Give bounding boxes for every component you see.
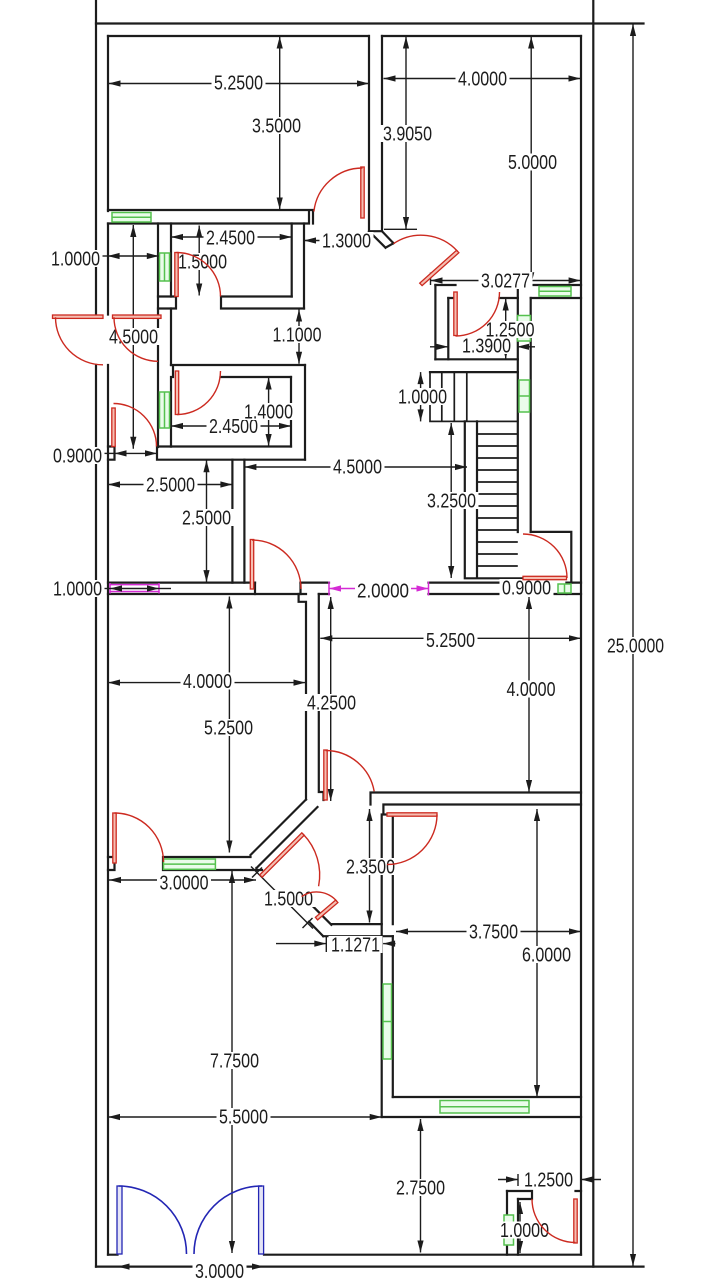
wall floor divider band upper line: [108, 581, 581, 583]
svg-text:2.7500: 2.7500: [396, 1178, 445, 1200]
wall floor divider band lower line: [108, 593, 581, 595]
dim 1.3000 hall door: [304, 240, 369, 242]
dim 5.2500 room1 width: [109, 83, 370, 85]
door D9 duct to kitchen: [112, 404, 157, 447]
svg-text:1.0000: 1.0000: [51, 249, 100, 271]
wall chamfer corner: [251, 800, 318, 871]
wall stairs nook: [531, 532, 572, 583]
svg-text:3.9050: 3.9050: [383, 124, 432, 146]
dim 3.9050 hall1 height: [405, 37, 407, 230]
wall bedroom2 bottom band with door opening: [108, 857, 262, 870]
wall small room BR top band with door opening: [507, 1191, 581, 1199]
dim 4.0000 room2 width: [384, 78, 581, 80]
wire exterior right wall inner line: [580, 36, 582, 1255]
label 1.0000 magenta window: [51, 579, 105, 601]
label 5.0000 room2: [506, 152, 560, 174]
dim 0.9000 duct door: [102, 452, 115, 454]
svg-text:0.9000: 0.9000: [502, 578, 551, 600]
dim 4.5000 lightwell column height: [132, 225, 134, 449]
svg-text:1.5000: 1.5000: [178, 252, 227, 274]
svg-text:5.2500: 5.2500: [214, 73, 263, 95]
window stairwell right wall: [519, 380, 530, 412]
label 0.9000 stairs door: [500, 578, 554, 600]
svg-text:3.5000: 3.5000: [252, 116, 301, 138]
label 2.0000 magenta: [355, 581, 411, 603]
wall divider rooms4-3: [371, 793, 582, 815]
label 2.3500 hall2: [344, 857, 398, 879]
dim 1.5000 chamfer door diagonal: [251, 867, 313, 929]
label 4.5000 lightwell col: [107, 327, 161, 349]
door D17 small room BR: [532, 1199, 577, 1243]
dim 4.0000 room4 height: [528, 597, 530, 792]
svg-text:3.7500: 3.7500: [469, 922, 518, 944]
dim 1.0000 small room BR: [519, 1202, 521, 1253]
wall bathroom2 top band with door opening: [171, 365, 305, 447]
wire exterior right wall outer line: [592, 0, 594, 1267]
wire exterior bottom wall inner line with entrance opening: [108, 1254, 581, 1256]
label 2.4500 bathroom1: [204, 228, 258, 250]
door blue entrance right leaf: [194, 1186, 264, 1254]
svg-text:4.5000: 4.5000: [333, 457, 382, 479]
label 1.3900 WC: [460, 336, 514, 358]
stair landing box: [430, 372, 518, 421]
STAIRS: [430, 372, 518, 566]
label 2.5000 kitchen h: [180, 508, 234, 530]
svg-text:1.3000: 1.3000: [322, 231, 371, 253]
dim 2.0000 magenta window: [329, 588, 429, 590]
DIMS: [100, 24, 633, 1267]
wall room1 bottom band: [108, 210, 313, 224]
wall diagonal stub hall1: [369, 231, 394, 248]
wire exterior left wall outer line: [95, 0, 97, 1267]
window hall1 wall: [539, 287, 571, 297]
dim 1.3900 WC width: [430, 346, 448, 348]
window magenta 2.0 opening ticks: [329, 582, 429, 596]
label 4.0000 bedroom2: [181, 671, 235, 693]
dim 3.0277 room2 bottom: [431, 280, 581, 282]
svg-text:3.2500: 3.2500: [427, 491, 476, 513]
label 2.5000 kitchen w: [144, 475, 198, 497]
wall small room BR left band: [507, 1191, 518, 1255]
door D1 room1: [314, 167, 364, 218]
window small room BR left wall: [504, 1215, 514, 1245]
door D15 garage diagonal: [302, 892, 338, 920]
dim 5.2500 room4 width: [320, 637, 581, 639]
svg-text:1.0000: 1.0000: [53, 579, 102, 601]
label 3.0000 entrance: [193, 1261, 247, 1280]
svg-text:2.4500: 2.4500: [206, 228, 255, 250]
wall kitchen right band: [232, 460, 244, 583]
dim 1.0000 lightwell width: [100, 255, 108, 257]
door D14 chamfer 1.5: [260, 833, 320, 886]
label 3.2500 stairs: [425, 491, 479, 513]
WALLS: [96, 0, 644, 1267]
wall bathroom1 right band: [292, 224, 304, 309]
wall garage NE horizontals: [323, 924, 393, 936]
label 4.0000 room2: [456, 69, 510, 91]
dim 1.2500 small room BR: [498, 1179, 518, 1181]
wall stair west band: [465, 421, 523, 578]
dim 4.0000 bedroom2 width: [108, 682, 306, 684]
wall room2 bottom band with WC door opening: [435, 285, 581, 298]
label 5.2500 room4: [424, 630, 478, 652]
svg-text:5.0000: 5.0000: [508, 152, 557, 174]
dim 3.0000 bedroom2 door: [109, 879, 256, 881]
dim 5.5000 garage width: [108, 1116, 382, 1118]
dim 3.0000 entrance: [118, 1266, 265, 1268]
svg-text:7.7500: 7.7500: [210, 1051, 259, 1073]
label 6.0000 room3: [520, 945, 574, 967]
wall WC left band: [435, 285, 448, 359]
svg-text:1.5000: 1.5000: [264, 889, 313, 911]
label 1.2500 small BR: [522, 1170, 576, 1192]
label 5.2500 room1: [212, 73, 266, 95]
door D12 corridor to hall2: [324, 750, 374, 800]
svg-text:0.9000: 0.9000: [53, 446, 102, 468]
wall stairwell right band: [518, 285, 531, 532]
stair landing steps: [442, 372, 467, 421]
window WC right wall: [518, 316, 531, 342]
stair risers: [477, 434, 518, 566]
svg-text:1.4000: 1.4000: [244, 402, 293, 424]
dim 5.0000 room2 height: [530, 37, 532, 285]
label 1.2500 WC: [483, 320, 537, 342]
label 2.7500 porch: [394, 1178, 448, 1200]
svg-text:25.0000: 25.0000: [607, 636, 664, 658]
label 3.9050 hall1: [381, 124, 435, 146]
window bedroom2 bottom wall: [164, 859, 216, 869]
svg-text:3.0277: 3.0277: [481, 271, 530, 293]
label 1.0000 landing: [396, 387, 450, 409]
label 4.5000 corridor: [331, 457, 385, 479]
svg-text:1.0000: 1.0000: [500, 1220, 549, 1242]
wire exterior bottom wall outer line: [96, 1265, 644, 1267]
dim 1.1000 gap bathrooms: [298, 310, 300, 364]
dim 25.0000 overall height: [632, 24, 634, 1266]
DOORS: [53, 167, 578, 1254]
dim 1.0000 magenta window: [102, 588, 110, 590]
dim 3.7500 room3 width: [396, 931, 581, 933]
svg-text:1.2500: 1.2500: [524, 1170, 573, 1192]
label 5.2500 bedroom2: [202, 718, 256, 740]
dim 1.1271 garage diagonal door: [276, 943, 326, 945]
door D13 room3: [387, 813, 437, 865]
wall bedroom2 right band: [299, 594, 324, 800]
dim 2.5000 kitchen width: [108, 484, 232, 486]
door D16 bedroom2 to garage: [113, 813, 164, 863]
window room1 to lightwell: [112, 213, 151, 223]
dim 7.7500 garage height: [231, 871, 233, 1253]
svg-text:4.2500: 4.2500: [307, 693, 356, 715]
svg-text:2.0000: 2.0000: [357, 581, 409, 603]
label 1.1000: [270, 325, 324, 347]
wall floor divider jambs: [255, 578, 567, 594]
dim 2.7500 porch height: [420, 1119, 422, 1253]
door D11 stairs bottom: [523, 534, 567, 580]
label 1.5000 bathroom1: [176, 252, 230, 274]
window duct to bathroom2: [160, 392, 170, 428]
wall divider rooms1-2: [369, 36, 382, 231]
label 0.9000 duct door: [51, 446, 105, 468]
dim 4.5000 corridor width: [244, 466, 467, 468]
wire exterior top wall inner line: [108, 35, 581, 37]
window room3 bottom wall: [440, 1101, 529, 1114]
door D10 kitchen: [250, 540, 301, 590]
dim 3.2500 stair run: [450, 423, 452, 578]
wall garage NE diagonal: [309, 906, 331, 936]
wall bathroom2 right band: [291, 365, 305, 460]
label 7.7500 garage: [208, 1051, 262, 1073]
label 1.0000 lightwell: [49, 249, 103, 271]
svg-text:2.3500: 2.3500: [346, 857, 395, 879]
dim 1.5000 bathroom1 height: [198, 226, 200, 296]
label 1.0000 small BR: [498, 1220, 552, 1242]
svg-text:3.0000: 3.0000: [160, 873, 209, 895]
dim 1.2500 WC height: [505, 299, 507, 360]
svg-text:5.2500: 5.2500: [204, 718, 253, 740]
wall bathroom1 bottom band with door opening: [158, 297, 304, 309]
dim 2.5000 kitchen height: [206, 460, 208, 582]
label 1.1271: [329, 935, 383, 957]
wall lightwell-bathroom band: [158, 224, 171, 448]
svg-text:6.0000: 6.0000: [522, 945, 571, 967]
label 5.5000 garage: [217, 1107, 271, 1129]
door D5 lightwell exterior: [53, 315, 104, 365]
dim 5.2500 bedroom2 height: [228, 597, 230, 853]
svg-text:2.5000: 2.5000: [182, 508, 231, 530]
dim 2.4500 bathroom2 width: [171, 425, 291, 427]
svg-text:4.0000: 4.0000: [507, 679, 556, 701]
svg-text:5.5000: 5.5000: [219, 1107, 268, 1129]
door D8 bathroom2: [175, 371, 220, 415]
door D6 lightwell lower: [113, 315, 162, 361]
label 1.5000 chamfer door: [262, 889, 316, 911]
window at stair door 0.9: [558, 584, 571, 593]
door blue entrance left leaf: [117, 1186, 187, 1254]
dim 2.3500 hall2 height: [369, 809, 371, 923]
svg-text:1.1000: 1.1000: [273, 325, 322, 347]
window lightwell to bathroom1: [160, 253, 170, 281]
wire exterior top wall outer line: [96, 22, 644, 24]
label 25.0000 overall: [605, 636, 667, 658]
label 1.4000 bathroom2: [242, 402, 296, 424]
wall kitchen top band with door opening: [108, 447, 305, 460]
wall WC bottom band: [430, 359, 518, 372]
label 4.0000 room4: [504, 679, 558, 701]
door D3 WC: [454, 292, 500, 336]
dim 4.2500 corridor height: [330, 597, 332, 801]
dim 1.0000 stair landing: [420, 372, 422, 421]
svg-text:1.1271: 1.1271: [331, 935, 380, 957]
label 3.5000 room1: [250, 116, 304, 138]
svg-text:2.5000: 2.5000: [146, 475, 195, 497]
svg-text:1.3900: 1.3900: [462, 336, 511, 358]
label 3.0000 bedroom2 door: [157, 873, 211, 895]
door D7 bathroom1: [175, 253, 221, 297]
wall hall2 right band: [382, 815, 393, 1118]
svg-text:1.0000: 1.0000: [398, 387, 447, 409]
svg-text:3.0000: 3.0000: [195, 1261, 244, 1280]
window magenta 1.0 bedroom2 top wall: [110, 583, 159, 594]
svg-text:5.2500: 5.2500: [426, 630, 475, 652]
door D2 hall1 diagonal: [394, 235, 459, 285]
label 3.0277: [479, 271, 533, 293]
wall room3 bottom band: [382, 1097, 581, 1117]
dim 6.0000 room3 height: [536, 809, 538, 1097]
svg-text:4.0000: 4.0000: [183, 671, 232, 693]
window garage to room3 wall: [383, 984, 392, 1059]
label 1.3000 hall door: [320, 231, 374, 253]
dim 3.5000 room1 height: [279, 37, 281, 210]
wire exterior left wall inner line with door opening: [107, 36, 109, 1255]
label 4.2500 corridor h: [305, 693, 359, 715]
label 3.7500 room3: [467, 922, 521, 944]
svg-text:4.0000: 4.0000: [458, 69, 507, 91]
label 2.4500 bathroom2: [207, 416, 261, 438]
WINDOWS: [110, 213, 571, 1246]
dim 1.4000 bathroom2 height: [268, 378, 270, 447]
dim 2.4500 bathroom1 width: [171, 236, 292, 238]
